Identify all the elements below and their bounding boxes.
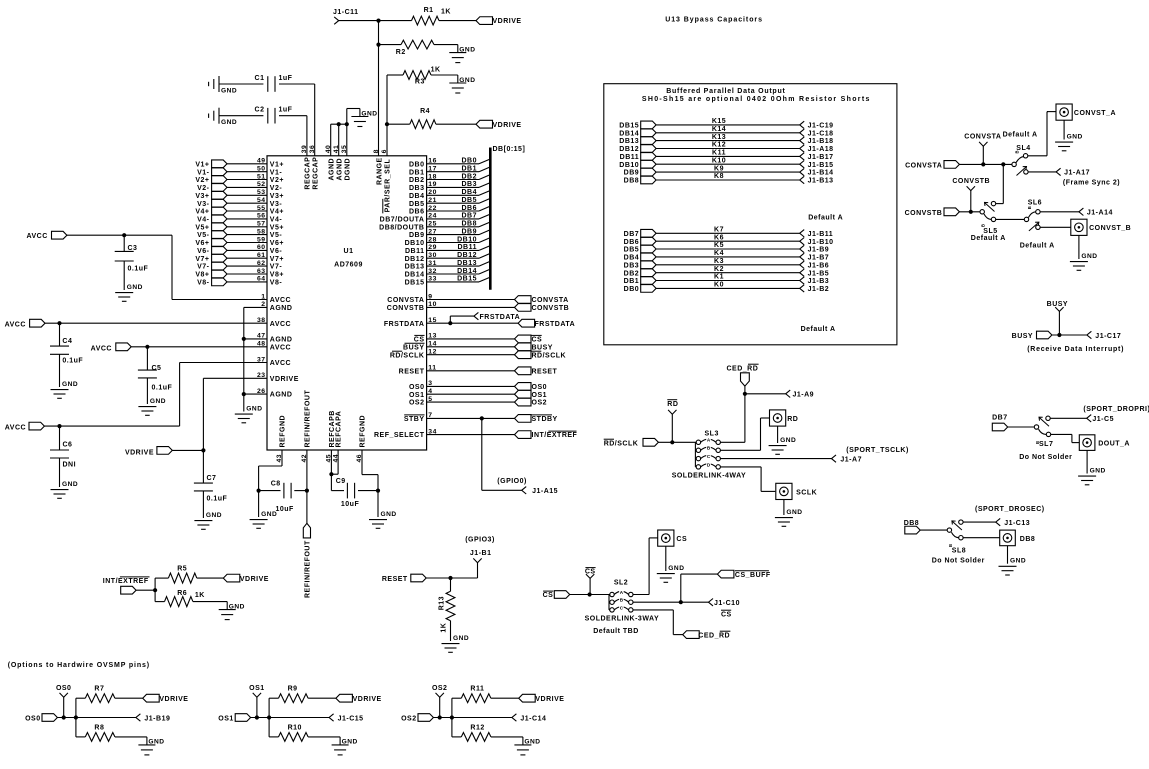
- svg-text:Default A: Default A: [808, 215, 843, 222]
- svg-text:J1-B19: J1-B19: [144, 715, 170, 722]
- svg-text:DB8/DOUTB: DB8/DOUTB: [379, 224, 424, 231]
- svg-text:AGND: AGND: [270, 305, 293, 312]
- svg-text:DB14: DB14: [405, 272, 425, 279]
- svg-text:10uF: 10uF: [341, 501, 360, 508]
- svg-text:VDRIVE: VDRIVE: [535, 696, 564, 703]
- svg-text:51: 51: [257, 173, 266, 180]
- svg-text:1uF: 1uF: [279, 107, 293, 114]
- svg-text:V6+: V6+: [195, 240, 209, 247]
- svg-text:DB8: DB8: [624, 178, 640, 185]
- svg-text:C7: C7: [207, 475, 217, 482]
- svg-text:DB1: DB1: [461, 166, 477, 173]
- svg-text:DB2: DB2: [624, 270, 640, 277]
- svg-text:0.1uF: 0.1uF: [128, 266, 149, 273]
- svg-text:J1-B10: J1-B10: [808, 239, 834, 246]
- svg-text:DB10: DB10: [405, 240, 425, 247]
- svg-text:(SPORT_DROSEC): (SPORT_DROSEC): [975, 506, 1045, 513]
- svg-text:Do Not Solder: Do Not Solder: [932, 557, 985, 564]
- svg-text:CS: CS: [414, 337, 425, 344]
- svg-text:GND: GND: [1067, 134, 1083, 141]
- svg-text:K6: K6: [714, 234, 724, 241]
- svg-text:1K: 1K: [195, 592, 205, 599]
- svg-text:V5-: V5-: [197, 232, 210, 239]
- svg-text:DB1: DB1: [409, 169, 425, 176]
- svg-text:K1: K1: [714, 274, 724, 281]
- svg-text:GND: GND: [786, 509, 802, 516]
- svg-text:V2-: V2-: [270, 185, 283, 192]
- svg-text:DB0: DB0: [624, 286, 640, 293]
- svg-text:C9: C9: [336, 478, 346, 485]
- svg-text:GND: GND: [62, 481, 78, 488]
- svg-text:SOLDERLINK-4WAY: SOLDERLINK-4WAY: [672, 473, 747, 480]
- svg-text:V2-: V2-: [197, 185, 210, 192]
- svg-text:DB13: DB13: [457, 260, 477, 267]
- svg-text:1K: 1K: [431, 66, 441, 73]
- svg-text:REGCAP: REGCAP: [312, 157, 319, 190]
- svg-text:DB11: DB11: [405, 248, 425, 255]
- svg-text:DB4: DB4: [624, 255, 640, 262]
- svg-text:61: 61: [257, 252, 266, 259]
- svg-text:OS1: OS1: [218, 716, 234, 723]
- svg-text:CONVSTB: CONVSTB: [387, 305, 425, 312]
- svg-text:J1-A17: J1-A17: [1064, 170, 1090, 177]
- svg-text:J1-C18: J1-C18: [808, 130, 834, 137]
- svg-text:DB5: DB5: [461, 197, 477, 204]
- svg-text:DB12: DB12: [457, 252, 477, 259]
- svg-text:AVCC: AVCC: [270, 321, 291, 328]
- svg-text:RD/SCLK: RD/SCLK: [532, 352, 567, 359]
- svg-text:DB2: DB2: [461, 173, 477, 180]
- svg-text:V1-: V1-: [270, 169, 283, 176]
- svg-text:GND: GND: [221, 119, 237, 126]
- svg-text:DB10: DB10: [619, 162, 639, 169]
- svg-text:RANGE: RANGE: [377, 157, 384, 185]
- svg-text:AGND: AGND: [270, 392, 293, 399]
- svg-text:RESET: RESET: [532, 368, 558, 375]
- svg-text:R1: R1: [424, 7, 434, 14]
- svg-text:CS: CS: [532, 337, 543, 344]
- svg-text:1K: 1K: [441, 9, 451, 16]
- svg-text:CONVSTA: CONVSTA: [905, 163, 942, 170]
- svg-text:V2+: V2+: [270, 177, 284, 184]
- svg-text:V7-: V7-: [197, 264, 210, 271]
- svg-text:GND: GND: [150, 398, 166, 405]
- svg-text:PAR/SER_SEL: PAR/SER_SEL: [385, 159, 392, 213]
- svg-text:RD: RD: [787, 416, 798, 423]
- svg-text:GND: GND: [1010, 558, 1026, 565]
- svg-text:V7-: V7-: [270, 264, 283, 271]
- svg-text:57: 57: [257, 221, 266, 228]
- svg-text:AVCC: AVCC: [5, 322, 26, 329]
- svg-text:FRSTDATA: FRSTDATA: [535, 321, 576, 328]
- svg-text:C3: C3: [128, 245, 138, 252]
- svg-text:53: 53: [257, 189, 266, 196]
- svg-text:DB15: DB15: [405, 280, 425, 287]
- svg-text:K14: K14: [712, 126, 726, 133]
- svg-text:DB3: DB3: [409, 185, 425, 192]
- svg-text:CS: CS: [676, 536, 687, 543]
- svg-text:J1-B6: J1-B6: [808, 262, 830, 269]
- svg-text:55: 55: [257, 205, 266, 212]
- svg-text:DB8: DB8: [1020, 536, 1036, 543]
- svg-text:DB6: DB6: [624, 239, 640, 246]
- svg-text:J1-B15: J1-B15: [808, 162, 834, 169]
- svg-text:J1-A15: J1-A15: [532, 488, 558, 495]
- svg-text:Default A: Default A: [1020, 243, 1055, 250]
- svg-text:V7+: V7+: [195, 256, 209, 263]
- svg-text:J1-B18: J1-B18: [808, 138, 834, 145]
- svg-text:J1-C5: J1-C5: [1092, 416, 1114, 423]
- svg-text:(Receive Data Interrupt): (Receive Data Interrupt): [1027, 346, 1124, 353]
- svg-text:AGND: AGND: [336, 158, 343, 181]
- svg-text:0.1uF: 0.1uF: [62, 358, 83, 365]
- svg-text:K9: K9: [714, 165, 724, 172]
- svg-text:(SPORT_TSCLK): (SPORT_TSCLK): [846, 447, 909, 454]
- svg-text:K3: K3: [714, 258, 724, 265]
- svg-text:DB14: DB14: [457, 268, 477, 275]
- svg-text:DB5: DB5: [409, 201, 425, 208]
- svg-text:R12: R12: [470, 725, 484, 732]
- svg-text:V6+: V6+: [270, 240, 284, 247]
- svg-text:OS2: OS2: [401, 716, 417, 723]
- svg-text:DB4: DB4: [409, 193, 425, 200]
- svg-text:56: 56: [257, 213, 266, 220]
- svg-text:V5+: V5+: [195, 224, 209, 231]
- svg-text:CONVST_B: CONVST_B: [1089, 225, 1131, 232]
- svg-text:SL5: SL5: [983, 228, 997, 235]
- svg-text:Default A: Default A: [1003, 132, 1038, 139]
- svg-text:J1-B13: J1-B13: [808, 178, 834, 185]
- svg-text:V4-: V4-: [197, 217, 210, 224]
- svg-text:(Frame Sync 2): (Frame Sync 2): [1063, 179, 1120, 186]
- svg-text:DB11: DB11: [620, 154, 640, 161]
- svg-text:V1+: V1+: [270, 161, 284, 168]
- svg-text:VDRIVE: VDRIVE: [240, 576, 269, 583]
- svg-text:J1-B7: J1-B7: [808, 255, 830, 262]
- svg-text:REGCAP: REGCAP: [305, 157, 312, 190]
- svg-text:GND: GND: [127, 284, 143, 291]
- svg-text:J1-A18: J1-A18: [808, 146, 834, 153]
- svg-text:V3-: V3-: [197, 201, 210, 208]
- svg-text:R13: R13: [439, 596, 446, 610]
- svg-text:RD: RD: [667, 401, 678, 408]
- svg-text:J1-C11: J1-C11: [333, 9, 359, 16]
- svg-text:DB3: DB3: [624, 262, 640, 269]
- svg-text:DB13: DB13: [619, 138, 639, 145]
- svg-text:SCLK: SCLK: [796, 489, 817, 496]
- svg-text:49: 49: [257, 158, 266, 165]
- svg-text:GND: GND: [62, 381, 78, 388]
- svg-text:R10: R10: [288, 725, 302, 732]
- svg-text:CONVSTA: CONVSTA: [387, 297, 424, 304]
- svg-text:R3: R3: [415, 79, 425, 86]
- svg-text:59: 59: [257, 236, 266, 243]
- svg-text:DB6: DB6: [409, 209, 425, 216]
- svg-text:SL7: SL7: [1039, 441, 1053, 448]
- svg-text:J1-B2: J1-B2: [808, 286, 830, 293]
- svg-text:DB3: DB3: [461, 181, 477, 188]
- svg-text:OS0: OS0: [25, 716, 41, 723]
- svg-text:V8+: V8+: [270, 272, 284, 279]
- svg-text:0.1uF: 0.1uF: [152, 385, 173, 392]
- svg-text:INT/EXTREF: INT/EXTREF: [532, 432, 578, 439]
- svg-text:OS0: OS0: [532, 384, 548, 391]
- svg-text:AVCC: AVCC: [270, 360, 291, 367]
- svg-text:K4: K4: [714, 250, 724, 257]
- svg-text:DB15: DB15: [457, 276, 477, 283]
- svg-text:62: 62: [257, 260, 266, 267]
- svg-text:J1-C17: J1-C17: [1095, 333, 1121, 340]
- svg-text:CS: CS: [543, 592, 554, 599]
- svg-text:OS2: OS2: [409, 400, 425, 407]
- svg-text:J1-C19: J1-C19: [808, 123, 834, 130]
- svg-text:CONVSTA: CONVSTA: [964, 134, 1001, 141]
- svg-text:RD/SCLK: RD/SCLK: [604, 440, 639, 447]
- svg-text:V3-: V3-: [270, 201, 283, 208]
- svg-text:REFIN/REFOUT: REFIN/REFOUT: [305, 390, 312, 448]
- svg-text:DB12: DB12: [619, 146, 639, 153]
- svg-text:(Options to Hardwire OVSMP pin: (Options to Hardwire OVSMP pins): [8, 662, 150, 669]
- svg-text:AGND: AGND: [270, 337, 293, 344]
- svg-text:DB9: DB9: [461, 228, 477, 235]
- svg-text:63: 63: [257, 268, 266, 275]
- svg-text:CED_RD: CED_RD: [698, 632, 730, 639]
- svg-text:DB4: DB4: [461, 189, 477, 196]
- svg-text:SL8: SL8: [952, 547, 966, 554]
- svg-text:Buffered Parallel Data Output: Buffered Parallel Data Output: [666, 88, 785, 95]
- svg-text:R7: R7: [94, 685, 104, 692]
- svg-text:SL6: SL6: [1028, 200, 1042, 207]
- svg-text:DB7: DB7: [624, 231, 640, 238]
- svg-text:AVCC: AVCC: [91, 345, 112, 352]
- svg-text:V8-: V8-: [197, 280, 210, 287]
- svg-text:K5: K5: [714, 242, 724, 249]
- svg-text:DB11: DB11: [457, 244, 477, 251]
- svg-text:V6-: V6-: [197, 248, 210, 255]
- svg-text:J1-C13: J1-C13: [1004, 520, 1030, 527]
- svg-text:C6: C6: [63, 442, 73, 449]
- svg-text:SL2: SL2: [614, 580, 628, 587]
- svg-text:J1-B3: J1-B3: [808, 278, 830, 285]
- svg-text:CED_RD: CED_RD: [727, 365, 759, 372]
- svg-text:K15: K15: [712, 118, 726, 125]
- svg-text:V4+: V4+: [195, 209, 209, 216]
- svg-text:U13 Bypass Capacitors: U13 Bypass Capacitors: [665, 17, 763, 24]
- svg-text:DB6: DB6: [461, 205, 477, 212]
- svg-text:Default A: Default A: [801, 326, 836, 333]
- svg-text:VDRIVE: VDRIVE: [125, 449, 154, 456]
- svg-text:10uF: 10uF: [276, 506, 295, 513]
- svg-text:RESET: RESET: [399, 368, 425, 375]
- svg-text:Default TBD: Default TBD: [593, 628, 639, 635]
- svg-text:GND: GND: [780, 437, 796, 444]
- svg-text:BUSY: BUSY: [1012, 333, 1033, 340]
- svg-text:J1-B5: J1-B5: [808, 270, 830, 277]
- svg-text:DB7: DB7: [461, 213, 477, 220]
- svg-text:R11: R11: [470, 685, 484, 692]
- svg-text:CS: CS: [721, 611, 732, 618]
- svg-text:OS1: OS1: [249, 685, 265, 692]
- svg-text:V2+: V2+: [195, 177, 209, 184]
- svg-text:SH0-Sh15 are optional 0402 0Oh: SH0-Sh15 are optional 0402 0Ohm Resistor…: [642, 96, 871, 103]
- svg-text:J1-B9: J1-B9: [808, 247, 830, 254]
- svg-text:BUSY: BUSY: [403, 344, 424, 351]
- svg-text:V4+: V4+: [270, 209, 284, 216]
- svg-text:K7: K7: [714, 227, 724, 234]
- svg-text:Do Not Solder: Do Not Solder: [1019, 454, 1072, 461]
- svg-text:VDRIVE: VDRIVE: [493, 122, 522, 129]
- svg-text:J1-B17: J1-B17: [808, 154, 834, 161]
- svg-text:DB10: DB10: [457, 236, 477, 243]
- svg-text:SL3: SL3: [705, 430, 719, 437]
- svg-text:J1-B1: J1-B1: [470, 550, 492, 557]
- svg-text:K13: K13: [712, 134, 726, 141]
- svg-text:REFGND: REFGND: [280, 415, 287, 448]
- svg-text:DB0: DB0: [461, 158, 477, 165]
- svg-text:AVCC: AVCC: [26, 233, 47, 240]
- svg-text:8: 8: [373, 149, 380, 153]
- svg-text:K12: K12: [712, 142, 726, 149]
- svg-text:REFCAPA: REFCAPA: [336, 411, 343, 448]
- svg-text:J1-C10: J1-C10: [714, 600, 740, 607]
- svg-text:V3+: V3+: [270, 193, 284, 200]
- svg-text:GND: GND: [453, 635, 469, 642]
- svg-text:64: 64: [257, 276, 266, 283]
- svg-text:VDRIVE: VDRIVE: [159, 696, 188, 703]
- svg-text:R5: R5: [177, 566, 187, 573]
- svg-text:J1-B14: J1-B14: [808, 170, 834, 177]
- svg-text:C2: C2: [255, 107, 265, 114]
- svg-text:OS1: OS1: [532, 392, 548, 399]
- svg-text:0.1uF: 0.1uF: [207, 495, 228, 502]
- svg-text:V8-: V8-: [270, 280, 283, 287]
- svg-text:DOUT_A: DOUT_A: [1098, 441, 1130, 448]
- svg-text:DB1: DB1: [624, 278, 640, 285]
- svg-text:STBY: STBY: [404, 416, 425, 423]
- svg-text:FRSTDATA: FRSTDATA: [384, 321, 425, 328]
- svg-text:REFIN/REFOUT: REFIN/REFOUT: [305, 540, 312, 598]
- svg-text:K0: K0: [714, 282, 724, 289]
- svg-text:DB14: DB14: [619, 130, 639, 137]
- svg-text:52: 52: [257, 181, 266, 188]
- svg-text:B: B: [1027, 206, 1032, 210]
- svg-text:J1-C14: J1-C14: [520, 715, 546, 722]
- svg-text:DB8: DB8: [461, 221, 477, 228]
- svg-text:REF_SELECT: REF_SELECT: [374, 432, 425, 439]
- svg-text:DB7: DB7: [992, 414, 1008, 421]
- svg-text:AVCC: AVCC: [5, 425, 26, 432]
- svg-text:VDRIVE: VDRIVE: [270, 376, 299, 383]
- svg-text:R9: R9: [288, 685, 298, 692]
- svg-text:AGND: AGND: [328, 158, 335, 181]
- svg-text:1uF: 1uF: [279, 75, 293, 82]
- svg-text:GND: GND: [668, 565, 684, 572]
- svg-text:CONVSTB: CONVSTB: [532, 305, 570, 312]
- svg-text:(SPORT_DROPRI): (SPORT_DROPRI): [1083, 406, 1149, 413]
- svg-text:K10: K10: [712, 157, 726, 164]
- svg-text:DB13: DB13: [405, 264, 425, 271]
- svg-text:C4: C4: [62, 338, 72, 345]
- svg-text:GND: GND: [1081, 253, 1097, 260]
- svg-text:OS0: OS0: [56, 685, 72, 692]
- svg-text:R4: R4: [420, 108, 430, 115]
- svg-text:C8: C8: [271, 480, 281, 487]
- svg-text:DB0: DB0: [409, 161, 425, 168]
- svg-text:R8: R8: [94, 725, 104, 732]
- svg-text:INT/EXTREF: INT/EXTREF: [103, 578, 149, 585]
- svg-text:AVCC: AVCC: [270, 344, 291, 351]
- svg-text:(GPIO0): (GPIO0): [497, 478, 527, 485]
- svg-text:50: 50: [257, 166, 266, 173]
- svg-text:60: 60: [257, 244, 266, 251]
- svg-text:J1-C15: J1-C15: [338, 715, 364, 722]
- svg-text:V3+: V3+: [195, 193, 209, 200]
- svg-text:OS1: OS1: [409, 392, 425, 399]
- svg-text:V5+: V5+: [270, 224, 284, 231]
- svg-text:DNI: DNI: [63, 462, 77, 469]
- svg-text:V1-: V1-: [197, 169, 210, 176]
- svg-text:REFGND: REFGND: [360, 415, 367, 448]
- svg-text:CONVST_A: CONVST_A: [1074, 110, 1116, 117]
- svg-text:J1-B11: J1-B11: [808, 231, 834, 238]
- svg-text:GND: GND: [261, 511, 277, 518]
- svg-text:(GPIO3): (GPIO3): [465, 537, 495, 544]
- svg-text:GND: GND: [206, 512, 222, 519]
- svg-text:OS2: OS2: [432, 685, 448, 692]
- svg-text:GND: GND: [221, 87, 237, 94]
- svg-text:GND: GND: [246, 406, 262, 413]
- svg-text:DB9: DB9: [624, 170, 640, 177]
- svg-text:K8: K8: [714, 173, 724, 180]
- svg-text:CONVSTB: CONVSTB: [952, 178, 990, 185]
- svg-text:AVCC: AVCC: [270, 297, 291, 304]
- svg-text:B: B: [981, 223, 986, 227]
- svg-text:DGND: DGND: [344, 158, 351, 181]
- svg-text:V7+: V7+: [270, 256, 284, 263]
- svg-text:U1: U1: [344, 248, 354, 255]
- svg-text:58: 58: [257, 228, 266, 235]
- svg-text:C5: C5: [152, 365, 162, 372]
- svg-text:BUSY: BUSY: [532, 344, 553, 351]
- svg-text:V1+: V1+: [195, 161, 209, 168]
- svg-text:J1-A9: J1-A9: [793, 392, 815, 399]
- svg-text:V5-: V5-: [270, 232, 283, 239]
- svg-text:DB12: DB12: [405, 256, 425, 263]
- svg-text:V8+: V8+: [195, 272, 209, 279]
- svg-text:OS2: OS2: [532, 400, 548, 407]
- svg-text:R6: R6: [177, 590, 187, 597]
- svg-text:GND: GND: [1090, 468, 1106, 475]
- svg-text:K11: K11: [712, 150, 726, 157]
- svg-text:DB15: DB15: [619, 123, 639, 130]
- svg-text:SOLDERLINK-3WAY: SOLDERLINK-3WAY: [585, 615, 660, 622]
- svg-text:BUSY: BUSY: [1047, 301, 1068, 308]
- svg-text:R2: R2: [396, 49, 406, 56]
- svg-text:B: B: [1015, 150, 1020, 154]
- svg-text:54: 54: [257, 197, 266, 204]
- svg-text:J1-A7: J1-A7: [840, 456, 862, 463]
- svg-text:1K: 1K: [441, 623, 448, 633]
- svg-text:FRSTDATA: FRSTDATA: [480, 314, 521, 321]
- svg-text:RD/SCLK: RD/SCLK: [390, 352, 425, 359]
- svg-text:Default A: Default A: [971, 235, 1006, 242]
- svg-text:V6-: V6-: [270, 248, 283, 255]
- svg-text:DB2: DB2: [409, 177, 425, 184]
- svg-text:CS_BUFF: CS_BUFF: [735, 572, 771, 579]
- svg-text:DB[0:15]: DB[0:15]: [493, 146, 526, 153]
- svg-text:VDRIVE: VDRIVE: [353, 696, 382, 703]
- svg-text:OS0: OS0: [409, 384, 425, 391]
